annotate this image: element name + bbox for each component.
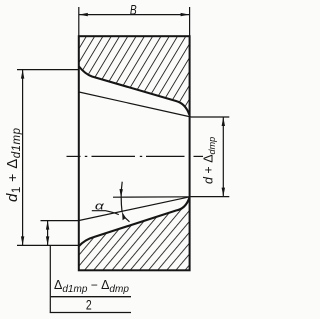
- svg-text:B: B: [130, 2, 137, 18]
- auxiliary horizontal line through lower small-end corner: [113, 196, 190, 198]
- dimension d: dimension line with arrows: [222, 117, 224, 197]
- dimension d1: dimension line with arrows: [22, 70, 24, 246]
- bore surface lower (thick taper line with fillets): [79, 198, 189, 246]
- svg-text:2: 2: [86, 297, 92, 313]
- nominal cone line lower (thin): [79, 197, 191, 221]
- leader bracket to fraction: [49, 245, 51, 312]
- svg-text:α: α: [95, 199, 105, 212]
- bore surface upper (thick taper line with fillets): [79, 67, 189, 115]
- ring outline rectangle: [79, 36, 190, 270]
- dimension B: extension lines: [78, 7, 80, 36]
- dimension B: dimension line with arrows: [79, 14, 190, 16]
- fraction bar: [51, 296, 131, 298]
- angle alpha: lower arrowhead (points up to cone line) with tail: [123, 216, 129, 222]
- centreline (dash-dot): [67, 155, 204, 157]
- dimension d1: extension lines: [17, 69, 79, 71]
- dimension d: extension lines: [191, 116, 229, 118]
- angle alpha: upper arrowhead (points down to aux line): [120, 189, 123, 197]
- label d + Delta_dmp (rotated): [202, 137, 218, 184]
- small gap dimension double arrow: [47, 221, 49, 246]
- small gap dimension extension line: [41, 220, 80, 222]
- hatched section: upper ring half: [79, 36, 190, 115]
- label d1 + Delta_d1mp (rotated): [4, 127, 23, 202]
- angle alpha: dimension arc through the gap: [121, 182, 122, 213]
- nominal cone line upper (thin): [79, 92, 191, 117]
- alpha underline leader: [92, 211, 119, 215]
- hatched section: lower ring half: [79, 198, 190, 270]
